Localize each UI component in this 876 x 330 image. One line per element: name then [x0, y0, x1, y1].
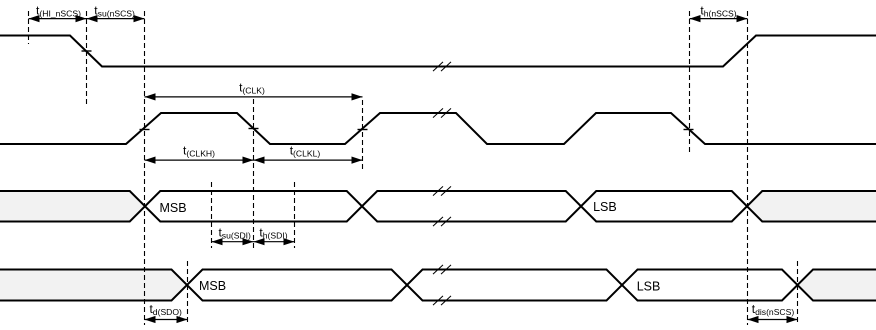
svg-text:MSB: MSB	[160, 201, 187, 215]
svg-text:LSB: LSB	[637, 279, 661, 293]
svg-text:MSB: MSB	[199, 279, 226, 293]
svg-text:LSB: LSB	[593, 200, 617, 214]
